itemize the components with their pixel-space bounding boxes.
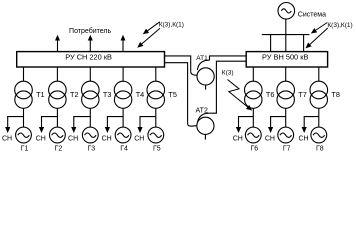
svg-text:СН: СН [102, 135, 112, 142]
transformer T2 [49, 67, 67, 108]
SN auxiliary branch arrow unit 1 [8, 117, 24, 132]
svg-text:Т8: Т8 [331, 90, 340, 99]
transformer T3 [82, 67, 100, 108]
generator G2 [50, 127, 66, 143]
SN auxiliary branch arrow unit 6 [239, 117, 254, 132]
svg-text:К(3),К(1): К(3),К(1) [327, 22, 352, 29]
svg-text:Г5: Г5 [153, 145, 161, 152]
transformer T4 [114, 67, 132, 108]
svg-text:Г7: Г7 [283, 145, 291, 152]
SN auxiliary branch arrow unit 3 [74, 117, 91, 132]
SN auxiliary branch arrow unit 8 [304, 117, 319, 132]
svg-text:СН: СН [233, 135, 243, 142]
svg-text:Т7: Т7 [298, 90, 307, 99]
autotransformer AT2 [188, 61, 247, 139]
svg-text:СН: СН [2, 135, 12, 142]
generator G5 [148, 127, 164, 143]
svg-text:Г1: Г1 [21, 145, 29, 152]
unit wire T5-G5 [155, 108, 157, 127]
unit wire T1-G1 [23, 108, 25, 127]
generator G7 [278, 127, 294, 143]
generator G3 [82, 127, 98, 143]
svg-text:Т6: Т6 [266, 90, 275, 99]
svg-text:К(3): К(3) [222, 69, 234, 76]
SN auxiliary branch arrow unit 4 [107, 117, 123, 132]
consumer feeder arrow 2 [89, 37, 91, 52]
unit wire T2-G2 [56, 108, 58, 127]
svg-text:РУ ВН 500 кВ: РУ ВН 500 кВ [262, 52, 308, 61]
transformer T8 [310, 67, 328, 108]
system source [278, 3, 295, 20]
transformer T1 [15, 67, 33, 108]
fault arrow K(3),K(1) to 500kV line [312, 23, 327, 33]
transformer T7 [277, 67, 295, 108]
svg-text:Т1: Т1 [36, 90, 45, 99]
SN auxiliary branch arrow unit 2 [42, 117, 58, 132]
line connection tick 1 [270, 35, 272, 52]
generator G1 [16, 127, 32, 143]
consumer feeder arrow 3 [122, 37, 124, 52]
unit wire T4-G4 [122, 108, 124, 127]
bus RU SN 220 kV [17, 52, 165, 67]
generator G4 [115, 127, 131, 143]
fault arrow K(3),K(1) to 220kV bus [139, 28, 160, 46]
svg-text:СН: СН [265, 135, 275, 142]
svg-text:Г6: Г6 [250, 145, 258, 152]
svg-text:Система: Система [298, 11, 326, 18]
unit wire T7-G7 [285, 108, 287, 127]
consumer feeder arrow 1 [57, 37, 59, 52]
svg-text:Г4: Г4 [120, 145, 128, 152]
svg-text:СН: СН [36, 135, 46, 142]
generator G8 [311, 127, 327, 143]
svg-text:Т3: Т3 [103, 90, 112, 99]
svg-text:Т4: Т4 [136, 90, 145, 99]
unit wire T6-G6 [252, 108, 254, 127]
svg-text:Г3: Г3 [87, 145, 95, 152]
fault arrow K(3),K(1) to 500kV bus [307, 28, 328, 47]
svg-text:АТ2: АТ2 [196, 108, 208, 115]
wire 220kV bus to AT2 [165, 63, 188, 125]
transformer T5 [147, 67, 165, 108]
transformer T6 [245, 67, 263, 108]
svg-text:РУ СН 220 кВ: РУ СН 220 кВ [65, 52, 112, 61]
svg-text:СН: СН [298, 135, 308, 142]
svg-text:К(3),К(1): К(3),К(1) [159, 22, 184, 29]
overhead line node [262, 34, 310, 36]
svg-text:Т5: Т5 [168, 90, 177, 99]
wire 220kV bus to AT1 [165, 56, 191, 71]
unit wire T3-G3 [89, 108, 91, 127]
svg-text:Г2: Г2 [55, 145, 63, 152]
bus RU VN 500 kV [246, 52, 327, 67]
SN auxiliary branch arrow unit 7 [271, 117, 286, 132]
svg-text:СН: СН [68, 135, 78, 142]
svg-text:СН: СН [134, 135, 144, 142]
wire system to 500kV bus [285, 19, 287, 52]
line connection tick 2 [303, 35, 305, 52]
fault lightning K(3) at unit T6 [228, 80, 251, 110]
fault arrow K(3),K(1) to 220kV line [144, 22, 160, 33]
svg-text:Т2: Т2 [70, 90, 79, 99]
autotransformer AT1 [191, 56, 247, 90]
generator G6 [245, 127, 261, 143]
SN auxiliary branch arrow unit 5 [140, 117, 156, 132]
svg-text:Потребитель: Потребитель [69, 27, 111, 35]
svg-text:Г8: Г8 [316, 145, 324, 152]
svg-text:АТ1: АТ1 [196, 55, 208, 62]
unit wire T8-G8 [318, 108, 320, 127]
